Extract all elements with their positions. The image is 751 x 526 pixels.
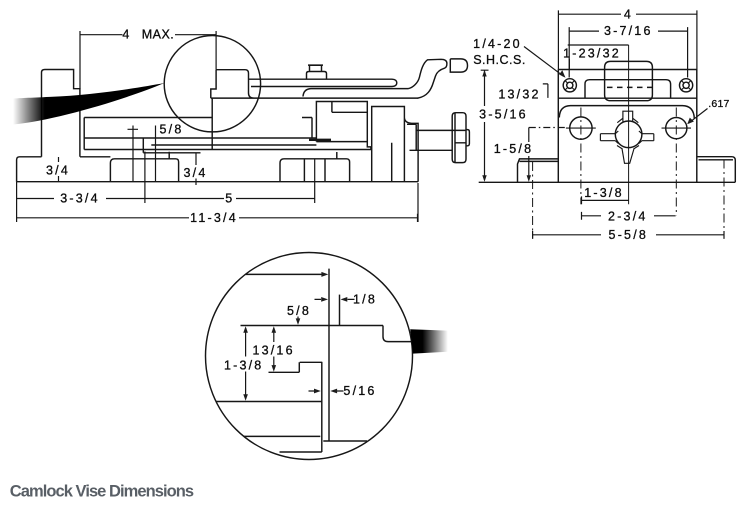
svg-text:Camlock Vise Dimensions: Camlock Vise Dimensions	[10, 483, 194, 501]
svg-text:1-3/8: 1-3/8	[224, 358, 264, 372]
svg-text:3/4: 3/4	[184, 166, 208, 180]
svg-text:3-7/16: 3-7/16	[604, 24, 653, 38]
svg-text:5-5/8: 5-5/8	[609, 228, 649, 242]
svg-text:3-3/4: 3-3/4	[60, 192, 100, 206]
svg-text:2-3/4: 2-3/4	[608, 210, 648, 224]
svg-text:5: 5	[225, 192, 234, 206]
svg-text:1-23/32: 1-23/32	[563, 46, 621, 60]
svg-text:S.H.C.S.: S.H.C.S.	[473, 53, 526, 67]
svg-text:4: 4	[624, 8, 633, 22]
svg-text:5/8: 5/8	[160, 122, 184, 136]
svg-text:13/16: 13/16	[252, 343, 294, 357]
svg-text:5/16: 5/16	[343, 384, 376, 398]
svg-text:.617: .617	[708, 98, 729, 110]
svg-text:13/32: 13/32	[498, 88, 540, 102]
svg-text:3-5/16: 3-5/16	[479, 108, 528, 122]
svg-text:1-3/8: 1-3/8	[584, 186, 624, 200]
svg-text:1/4-20: 1/4-20	[473, 37, 522, 51]
svg-text:1-5/8: 1-5/8	[494, 142, 534, 156]
svg-text:1/8: 1/8	[353, 292, 377, 306]
svg-text:MAX.: MAX.	[142, 27, 175, 41]
svg-text:11-3/4: 11-3/4	[190, 211, 238, 225]
svg-text:5/8: 5/8	[287, 304, 311, 318]
svg-text:4: 4	[122, 27, 131, 41]
svg-text:3/4: 3/4	[46, 164, 70, 178]
